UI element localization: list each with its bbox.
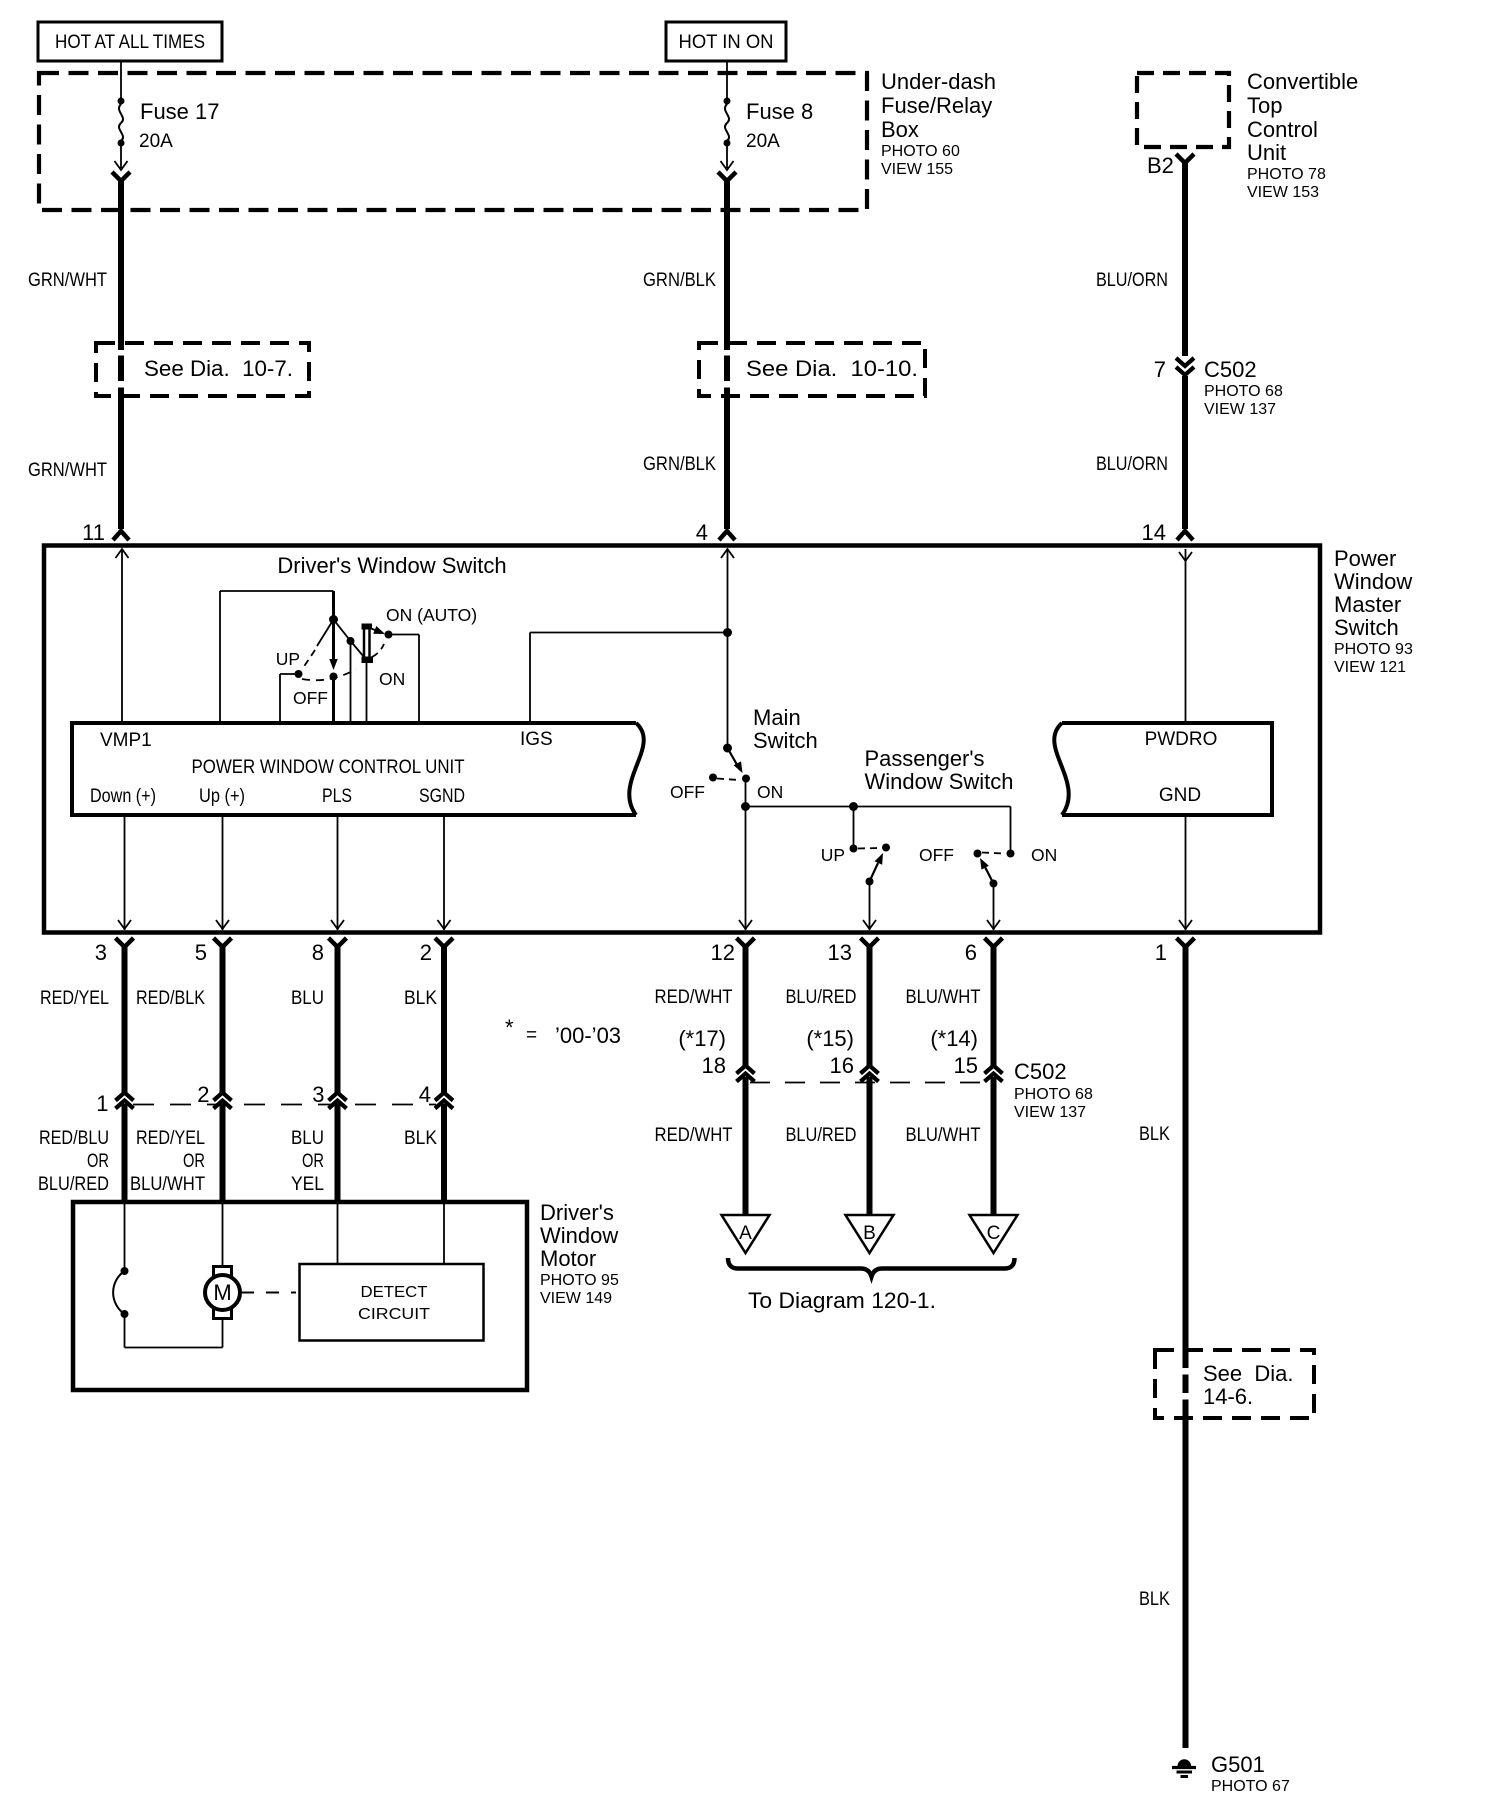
svg-text:ON: ON: [1031, 845, 1057, 865]
pin 4 internal wire: [721, 549, 734, 558]
wire PLS to detect circuit: [337, 1202, 339, 1264]
svg-text:Under-dash: Under-dash: [881, 69, 996, 94]
svg-text:ON: ON: [757, 782, 783, 802]
svg-text:Fuse 8: Fuse 8: [746, 99, 813, 124]
fuse 17 20A: [118, 98, 125, 105]
svg-text:BLK: BLK: [1139, 1589, 1170, 1610]
wire RED/WHT pin to connector C502: [743, 945, 749, 1067]
svg-text:See Dia. 10-7.: See Dia. 10-7.: [144, 356, 293, 381]
svg-text:20A: 20A: [746, 131, 780, 152]
svg-text:PHOTO 68: PHOTO 68: [1204, 383, 1283, 400]
svg-text:BLU/WHT: BLU/WHT: [130, 1174, 205, 1195]
svg-text:YEL: YEL: [291, 1174, 324, 1195]
dashed link motor to detect circuit: [241, 1292, 296, 1294]
svg-text:7: 7: [1154, 357, 1166, 382]
wire BLU/RED to triangle B: [867, 1077, 873, 1214]
svg-text:Passenger's: Passenger's: [865, 746, 985, 771]
connector C501 dashed line: [133, 1104, 436, 1106]
svg-text:PHOTO 60: PHOTO 60: [881, 143, 960, 160]
off-page connector triangle C: [970, 1215, 1018, 1253]
control unit output wires to pins 3 5 8 2: [124, 815, 126, 930]
wire main switch to feed node: [745, 780, 747, 807]
svg-text:M: M: [213, 1280, 231, 1305]
wire BLU/WHT pin to connector C502: [991, 945, 997, 1067]
wire ON branch: [1010, 807, 1012, 854]
wire HOT IN ON to fuse 8: [726, 61, 728, 98]
svg-text:OFF: OFF: [670, 782, 705, 802]
travel arc near ON: [372, 644, 384, 657]
svg-text:Window Switch: Window Switch: [865, 769, 1014, 794]
svg-text:Motor: Motor: [540, 1246, 596, 1271]
riser wire from paddle: [366, 663, 368, 723]
detect circuit box: [300, 1264, 484, 1341]
svg-text:Top: Top: [1247, 93, 1282, 118]
link paddle to ON AUTO contact: [370, 628, 381, 633]
svg-text:Unit: Unit: [1247, 140, 1286, 165]
svg-text:BLU: BLU: [291, 988, 324, 1009]
wire junction to main switch: [727, 633, 729, 747]
svg-text:Control: Control: [1247, 117, 1318, 142]
svg-text:G501: G501: [1211, 1752, 1265, 1777]
svg-text:OFF: OFF: [293, 688, 328, 708]
driver switch common wire: [332, 591, 335, 663]
svg-text:IGS: IGS: [520, 729, 553, 750]
svg-text:BLU/ORN: BLU/ORN: [1096, 454, 1168, 475]
svg-text:2: 2: [420, 940, 432, 965]
node UP contact: [295, 670, 303, 678]
node pivot of driver switch: [329, 615, 338, 624]
wire BLU/ORN B2 to connector C502: [1182, 160, 1188, 356]
brace to diagram 120-1: [728, 1258, 1015, 1277]
svg-text:PHOTO 67: PHOTO 67: [1211, 1778, 1290, 1795]
auto detent paddle: [363, 626, 366, 660]
svg-text:Down (+): Down (+): [90, 786, 156, 807]
svg-text:12: 12: [711, 940, 735, 965]
svg-text:Convertible: Convertible: [1247, 69, 1358, 94]
wire GRN/WHT fuse 17 to pin 11: [118, 179, 124, 350]
pin 13 internal wire: [869, 882, 871, 931]
See Dia. 10-10. reference box: [699, 343, 925, 396]
svg-text:PWDRO: PWDRO: [1145, 729, 1218, 750]
passenger OFF/ON switch: [1007, 850, 1015, 858]
pin 14 internal wire to PWDRO: [1179, 552, 1192, 561]
wire UP contact step: [280, 673, 299, 675]
svg-text:PHOTO 68: PHOTO 68: [1014, 1086, 1093, 1103]
power window control unit box: [72, 723, 636, 815]
driver switch frame: [219, 591, 221, 723]
See Dia. 14-6. reference box: [1155, 1350, 1314, 1418]
svg-text:BLU/WHT: BLU/WHT: [906, 987, 981, 1008]
motor M driver window: [214, 1267, 232, 1277]
wire motor limit switch: [124, 1202, 126, 1271]
svg-text:A: A: [739, 1223, 752, 1244]
svg-text:Up (+): Up (+): [199, 786, 245, 807]
svg-text:GND: GND: [1159, 785, 1201, 806]
connector chevron below fuse 17: [112, 172, 130, 181]
wire BLU/OR/YEL to window motor: [335, 1104, 341, 1200]
svg-text:PHOTO 93: PHOTO 93: [1334, 641, 1413, 658]
arrow fuse 8 output: [721, 161, 734, 170]
wire BLU pin to connector C501: [335, 945, 341, 1093]
svg-text:18: 18: [702, 1053, 726, 1078]
PWDRO GND unit box: [1062, 723, 1272, 815]
pin 11 internal wire to VMP1: [116, 549, 129, 558]
svg-text:PHOTO 95: PHOTO 95: [540, 1272, 619, 1289]
bus wire to passenger switch: [746, 806, 1011, 808]
wire RED/YEL pin to connector C501: [122, 945, 128, 1093]
svg-text:UP: UP: [821, 845, 845, 865]
svg-text:14-6.: 14-6.: [1203, 1384, 1253, 1409]
power window master switch box: [44, 546, 1320, 933]
svg-text:ON (AUTO): ON (AUTO): [386, 605, 477, 625]
svg-text:OR: OR: [87, 1151, 109, 1172]
svg-text:To Diagram 120-1.: To Diagram 120-1.: [748, 1288, 936, 1313]
svg-text:DETECT: DETECT: [361, 1284, 429, 1301]
svg-text:OR: OR: [302, 1151, 324, 1172]
driver switch travel arc: [302, 669, 356, 680]
svg-text:BLU/ORN: BLU/ORN: [1096, 270, 1168, 291]
svg-text:BLU: BLU: [291, 1128, 324, 1149]
svg-text:VIEW 155: VIEW 155: [881, 161, 953, 178]
connector C502 dashed line: [750, 1082, 989, 1084]
label box HOT AT ALL TIMES: [38, 22, 222, 61]
svg-text:20A: 20A: [139, 131, 173, 152]
svg-text:VIEW 137: VIEW 137: [1014, 1104, 1086, 1121]
svg-text:15: 15: [954, 1053, 978, 1078]
ground G501: [1178, 1759, 1192, 1766]
svg-text:BLK: BLK: [404, 988, 437, 1009]
wire GRN/BLK fuse 8 to pin 4: [724, 179, 730, 350]
svg-text:BLU/WHT: BLU/WHT: [906, 1125, 981, 1146]
wire UP branch: [853, 807, 855, 849]
wire BLK pin to connector C501: [441, 945, 447, 1093]
wire RED/BLU/OR/BLU/RED to window motor: [122, 1104, 128, 1200]
svg-text:C: C: [987, 1223, 1001, 1244]
svg-text:HOT AT ALL TIMES: HOT AT ALL TIMES: [55, 32, 205, 53]
wire HOT AT ALL TIMES to fuse 17: [120, 61, 122, 98]
node main feed junction: [741, 802, 750, 811]
driver window motor box: [73, 1202, 527, 1390]
wire SGND to detect circuit: [443, 1202, 445, 1264]
svg-text:PHOTO 78: PHOTO 78: [1247, 166, 1326, 183]
svg-text:BLU/RED: BLU/RED: [38, 1174, 109, 1195]
svg-text:Switch: Switch: [753, 728, 818, 753]
svg-text:CIRCUIT: CIRCUIT: [358, 1306, 431, 1323]
wire BLU/WHT to triangle C: [991, 1077, 997, 1214]
svg-text:GRN/BLK: GRN/BLK: [643, 270, 716, 291]
svg-text:B: B: [863, 1223, 876, 1244]
svg-text:14: 14: [1142, 520, 1166, 545]
svg-text:13: 13: [828, 940, 852, 965]
svg-text:VIEW 121: VIEW 121: [1334, 659, 1406, 676]
svg-text:Box: Box: [881, 117, 919, 142]
svg-text:*: *: [505, 1015, 514, 1040]
svg-text:8: 8: [312, 940, 324, 965]
svg-text:VIEW 149: VIEW 149: [540, 1290, 612, 1307]
svg-text:PLS: PLS: [322, 786, 352, 807]
node ON AUTO contact: [385, 631, 393, 639]
svg-text:BLU/RED: BLU/RED: [786, 987, 857, 1008]
svg-text:Window: Window: [540, 1223, 618, 1248]
wire ON AUTO riser: [389, 634, 420, 636]
svg-text:ON: ON: [379, 669, 405, 689]
svg-text:B2: B2: [1147, 153, 1174, 178]
driver switch UP arm: [317, 620, 334, 647]
svg-text:POWER WINDOW CONTROL UNIT: POWER WINDOW CONTROL UNIT: [192, 757, 465, 778]
svg-text:RED/WHT: RED/WHT: [655, 987, 733, 1008]
svg-text:6: 6: [965, 940, 977, 965]
svg-text:Driver's Window Switch: Driver's Window Switch: [277, 553, 506, 578]
svg-text:GRN/BLK: GRN/BLK: [643, 454, 716, 475]
svg-text:(*15): (*15): [806, 1026, 854, 1051]
svg-text:16: 16: [830, 1053, 854, 1078]
wire RED/YEL/OR/BLU/WHT to window motor: [220, 1104, 226, 1200]
svg-text:1: 1: [1155, 940, 1167, 965]
svg-text:VIEW 137: VIEW 137: [1204, 401, 1276, 418]
svg-text:OFF: OFF: [919, 845, 954, 865]
connector chevron below fuse 8: [718, 172, 736, 181]
svg-text:2: 2: [197, 1082, 209, 1107]
pin 1 internal wire GND: [1185, 815, 1187, 930]
node UP branch junction: [849, 802, 858, 811]
svg-text:1: 1: [96, 1091, 108, 1116]
wire motor to box top: [222, 1202, 224, 1266]
svg-text:OR: OR: [183, 1151, 205, 1172]
motor limit switch contact: [121, 1267, 129, 1275]
off-page connector triangle A: [722, 1215, 770, 1253]
wire fuse 17 output: [120, 146, 122, 168]
fuse 8 20A: [724, 98, 731, 105]
svg-text:5: 5: [195, 940, 207, 965]
arrow fuse 17 output: [115, 161, 128, 170]
svg-text:(*17): (*17): [678, 1026, 726, 1051]
wire BLK pin 1 to See Dia 14-6: [1183, 945, 1189, 1368]
svg-text:Window: Window: [1334, 569, 1412, 594]
wire BLU/ORN C502 to pin 14: [1182, 376, 1188, 529]
wire BLK See Dia 14-6 to ground G501: [1183, 1375, 1189, 1394]
under-dash fuse/relay box: [39, 73, 867, 210]
svg-text:4: 4: [696, 520, 708, 545]
wire switch to motor: [124, 1314, 126, 1348]
See Dia. 10-7. reference box: [96, 343, 309, 396]
pin 12 internal wire: [745, 807, 747, 931]
svg-text:See Dia. 10-10.: See Dia. 10-10.: [746, 356, 918, 381]
svg-text:Power: Power: [1334, 546, 1396, 571]
svg-text:’00-’03: ’00-’03: [555, 1023, 621, 1048]
svg-text:(*14): (*14): [930, 1026, 978, 1051]
svg-text:Fuse/Relay: Fuse/Relay: [881, 93, 992, 118]
main switch: [723, 744, 732, 753]
svg-text:VIEW 153: VIEW 153: [1247, 184, 1319, 201]
svg-text:RED/YEL: RED/YEL: [136, 1128, 205, 1149]
wire RED/BLK pin to connector C501: [220, 945, 226, 1093]
svg-text:RED/BLK: RED/BLK: [136, 988, 205, 1009]
svg-text:BLU/RED: BLU/RED: [786, 1125, 857, 1146]
svg-text:11: 11: [82, 520, 105, 545]
convertible top control unit box: [1137, 73, 1229, 147]
svg-text:HOT IN ON: HOT IN ON: [679, 32, 774, 53]
pin 6 internal wire: [993, 884, 995, 931]
wire BLK to window motor: [441, 1104, 447, 1200]
off-page connector triangle B: [846, 1215, 894, 1253]
svg-text:=: =: [526, 1025, 537, 1046]
svg-text:VMP1: VMP1: [100, 730, 152, 751]
wire BLU/RED pin to connector C502: [867, 945, 873, 1067]
svg-text:3: 3: [312, 1082, 324, 1107]
svg-text:3: 3: [95, 940, 107, 965]
wire fuse 8 output: [726, 146, 728, 168]
svg-text:Driver's: Driver's: [540, 1200, 614, 1225]
svg-text:Switch: Switch: [1334, 615, 1399, 640]
wire IGS to main switch junction: [529, 633, 531, 724]
svg-text:C502: C502: [1014, 1059, 1067, 1084]
driver switch arm to auto paddle: [334, 620, 351, 642]
svg-text:See Dia.: See Dia.: [1203, 1361, 1294, 1386]
svg-text:Master: Master: [1334, 592, 1401, 617]
svg-text:4: 4: [419, 1082, 431, 1107]
svg-text:SGND: SGND: [419, 786, 465, 807]
svg-text:GRN/WHT: GRN/WHT: [28, 270, 107, 291]
riser wire from arm node: [350, 641, 352, 723]
svg-text:C502: C502: [1204, 357, 1257, 382]
svg-text:GRN/WHT: GRN/WHT: [28, 460, 107, 481]
node junction pin4/IGS: [723, 628, 732, 637]
label box HOT IN ON: [666, 22, 786, 61]
wire RED/WHT to triangle A: [743, 1077, 749, 1214]
svg-text:BLK: BLK: [404, 1128, 437, 1149]
svg-text:RED/WHT: RED/WHT: [655, 1125, 733, 1146]
svg-text:BLK: BLK: [1139, 1124, 1170, 1145]
svg-text:RED/BLU: RED/BLU: [39, 1128, 109, 1149]
svg-text:Fuse 17: Fuse 17: [140, 99, 220, 124]
svg-text:RED/YEL: RED/YEL: [40, 988, 109, 1009]
passenger UP switch: [850, 845, 858, 853]
svg-text:Main: Main: [753, 705, 801, 730]
svg-text:UP: UP: [276, 649, 300, 669]
